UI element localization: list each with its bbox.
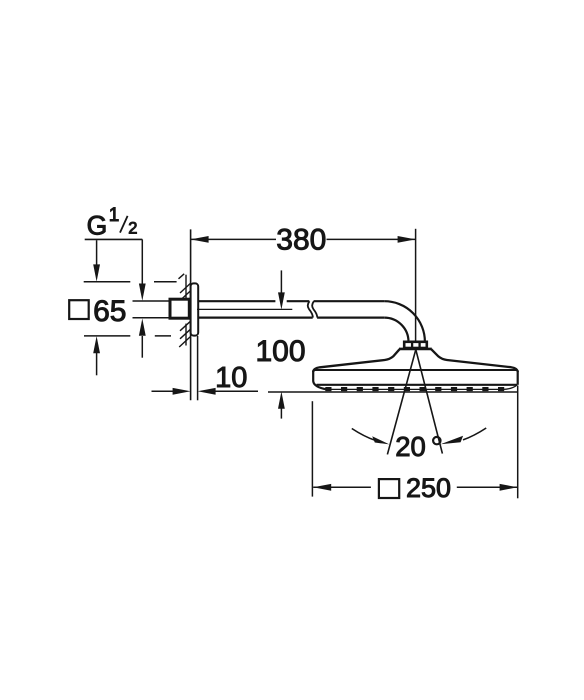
nozzle dashes (325, 387, 504, 391)
svg-text:1: 1 (109, 205, 120, 226)
wall hatch marks bottom (179, 321, 190, 347)
square symbol 65 (69, 300, 89, 319)
spray angle line left (387, 350, 415, 455)
wall inner line top segment (185, 275, 187, 300)
dimension 65 bottom extension line (84, 335, 130, 337)
shower arm top line after arrow gap (287, 300, 310, 302)
svg-text:G: G (87, 210, 108, 240)
dimension 100 up arrow (280, 408, 282, 419)
thread pipe bottom line (133, 317, 171, 319)
thread pipe top line (133, 300, 171, 302)
G 1/2 leader line with down arrow (141, 239, 143, 285)
head dome left slope (313, 349, 399, 372)
dimension 250 line left segment (313, 486, 371, 488)
svg-text:20: 20 (395, 431, 426, 462)
head rim right edge (517, 371, 519, 385)
pipe break squiggle left (308, 301, 313, 317)
wall hatch marks top (179, 274, 191, 300)
angle arc arrow right (463, 428, 486, 440)
dimension 380 right extension line (415, 229, 417, 341)
shower arm top line left piece (198, 300, 275, 302)
head rim bottom line (317, 384, 518, 386)
dimension 10 line right arrow (215, 390, 258, 392)
dimension 10 extension line (197, 336, 199, 400)
spray angle line right (416, 350, 443, 454)
svg-text:2: 2 (128, 220, 137, 238)
svg-text:380: 380 (276, 224, 326, 257)
collar ribs (412, 342, 420, 348)
head rim top inner line (314, 369, 517, 371)
nozzle line (327, 385, 517, 389)
G 1/2 up arrow (141, 336, 143, 358)
shower arm centerline (197, 308, 292, 310)
dimension 250 left arrowhead (313, 484, 331, 491)
dimension 100 down arrow (280, 270, 282, 294)
collar nut (404, 342, 427, 348)
dimension 380 left arrowhead (191, 236, 209, 243)
head rim left edge and bottom-left sweep (313, 371, 327, 390)
flange escutcheon plate (191, 283, 199, 335)
dimension 380 line right segment (327, 238, 416, 240)
svg-text:250: 250 (406, 473, 451, 503)
dimension 380 line left segment (191, 238, 276, 240)
shower arm top line right piece (314, 300, 385, 302)
pipe break squiggle right (312, 301, 317, 317)
svg-text:10: 10 (215, 362, 247, 394)
dimension 10 line left arrow (152, 390, 175, 392)
dimension 250 right extension line (517, 386, 519, 499)
head shoulder ledge (399, 348, 432, 351)
dimension 250 right arrowhead (500, 484, 518, 491)
wall inner line bottom segment (185, 324, 187, 346)
shower arm inner bend (384, 318, 408, 342)
G 1/2 underline (85, 238, 143, 240)
svg-text:65: 65 (93, 295, 126, 328)
degree symbol (433, 437, 440, 444)
head bottom extension line (268, 391, 518, 393)
shower arm outer bend (384, 301, 425, 342)
shower arm bottom line left piece (198, 317, 313, 319)
svg-text:100: 100 (255, 335, 305, 368)
square symbol 250 (379, 479, 399, 498)
dimension 65 down arrow (96, 240, 98, 266)
wall line (190, 229, 192, 400)
dimension 65 top extension line (84, 281, 131, 283)
head dome right slope (431, 349, 518, 372)
dimension 250 line right segment (457, 486, 518, 488)
shower arm bottom line right piece (317, 317, 384, 319)
dimension 65 up arrow (96, 353, 98, 375)
dimension 250 left extension line (311, 401, 313, 496)
union nut (170, 299, 189, 318)
angle arc arrow left (352, 429, 375, 441)
dimension 380 right arrowhead (398, 236, 416, 243)
